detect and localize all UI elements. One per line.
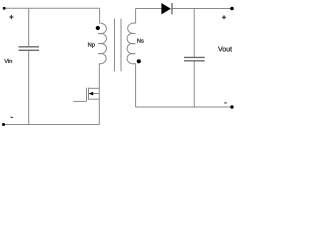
label output minus bbox=[224, 102, 227, 104]
node secondary dot bbox=[137, 59, 141, 63]
label input minus bbox=[11, 116, 14, 118]
node output minus terminal bbox=[230, 105, 233, 108]
wire primary bottom rail bbox=[4, 124, 100, 126]
label output plus bbox=[222, 15, 226, 19]
channel bar bbox=[88, 88, 90, 100]
source lead bbox=[89, 98, 100, 100]
wire output cap bottom lead bbox=[193, 61, 195, 107]
wire secondary bottom lead bbox=[135, 64, 137, 108]
capacitor Cout plates bbox=[184, 57, 205, 60]
wire secondary bottom rail bbox=[136, 106, 232, 108]
label Vin bbox=[4, 59, 12, 63]
transformer secondary winding Ns bbox=[127, 23, 135, 64]
gate stub bbox=[73, 100, 86, 102]
label input plus bbox=[9, 15, 13, 19]
drain lead bbox=[89, 87, 100, 89]
wire primary top rail bbox=[4, 7, 99, 9]
label Vout bbox=[218, 47, 232, 52]
wire MOSFET drain/source vertical bbox=[98, 64, 100, 125]
wire primary top lead into Np bbox=[99, 8, 101, 23]
wire output cap top lead bbox=[193, 9, 195, 58]
node primary dot bbox=[96, 26, 100, 30]
node output plus terminal bbox=[230, 7, 234, 11]
transformer core bbox=[115, 19, 122, 72]
body lead bbox=[93, 93, 100, 95]
transistor Q1 body arrow bbox=[89, 92, 94, 96]
wire diode cathode to output plus bbox=[172, 8, 232, 10]
wire input cap bottom lead bbox=[28, 51, 30, 125]
node input minus terminal bbox=[2, 123, 5, 126]
gate bar bbox=[86, 88, 88, 102]
wire secondary top lead bbox=[135, 9, 137, 24]
transformer primary winding Np bbox=[98, 23, 106, 64]
capacitor Cin plates bbox=[19, 47, 40, 51]
wire input cap top lead bbox=[28, 8, 30, 46]
diode D1 triangle bbox=[161, 3, 171, 14]
diode D1 cathode bar bbox=[171, 3, 173, 14]
label Ns bbox=[137, 39, 143, 43]
wire secondary top to diode anode bbox=[136, 8, 162, 10]
label Np bbox=[88, 43, 95, 48]
transistor Q1 MOSFET bbox=[73, 88, 99, 102]
node input plus terminal bbox=[3, 7, 6, 10]
